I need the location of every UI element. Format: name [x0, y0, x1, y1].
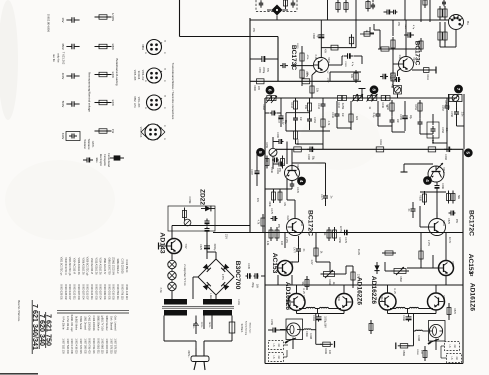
- svg-text:V313 AD161 Z6: V313 AD161 Z6: [94, 258, 97, 276]
- svg-text:St861 Stecker: St861 Stecker: [105, 315, 108, 330]
- electrolytic C375 2200u: [206, 243, 208, 246]
- wire mid amp rail: [277, 148, 463, 150]
- capacitor C387 top stub: [372, 3, 374, 5]
- capacitor C388: [384, 11, 388, 13]
- svg-text:R380: R380: [253, 85, 256, 91]
- headphone jack contacts: [370, 27, 374, 33]
- svg-text:2200µ: 2200µ: [213, 244, 216, 251]
- capacitor C478 under BC172C: [298, 245, 300, 249]
- electrolytic C447: [270, 112, 273, 114]
- svg-text:V306 AD162 Z6: V306 AD162 Z6: [81, 258, 84, 276]
- wire right base net: [420, 191, 446, 193]
- dashed speaker box right lower: [447, 354, 462, 363]
- svg-text:0,1µ: 0,1µ: [372, 113, 375, 118]
- svg-text:Bu: Bu: [466, 21, 470, 25]
- capacitor C457: [446, 102, 448, 106]
- wire matrix link1: [286, 112, 310, 114]
- svg-text:V306–312: V306–312: [141, 70, 143, 81]
- resistor R463 56: [306, 277, 308, 290]
- resistor R456 on rail: [334, 227, 336, 241]
- resistor R569 with terminal right: [398, 345, 411, 347]
- wire stage2 base: [393, 63, 399, 65]
- svg-text:only for: only for: [57, 53, 61, 62]
- emitter resistor R566 right: [410, 307, 419, 308]
- svg-text:C435: C435: [247, 263, 250, 269]
- svg-text:C480: C480: [276, 132, 279, 138]
- svg-text:V-Pot 25k lin: V-Pot 25k lin: [62, 316, 65, 330]
- dashed speaker box left upper: [269, 341, 284, 350]
- capacitor C381 input: [280, 65, 283, 67]
- svg-text:AC153: AC153: [271, 253, 278, 274]
- resistor R443: [295, 98, 297, 112]
- svg-text:R-Pot 10k log: R-Pot 10k log: [66, 316, 69, 331]
- capacitor C446: [336, 110, 338, 114]
- svg-text:8 900 132 011: 8 900 132 011: [90, 284, 93, 300]
- svg-text:Mains fuse: Mains fuse: [249, 323, 251, 334]
- wire to socket: [447, 19, 449, 21]
- resistor R455 on rail: [328, 227, 330, 241]
- parts list divider rule: [57, 310, 129, 312]
- wire right frame upper: [463, 94, 465, 149]
- diode bias right: [376, 262, 378, 274]
- svg-text:1/10W: 1/10W: [111, 13, 115, 21]
- capacitor C389: [392, 11, 394, 13]
- svg-text:C483: C483: [444, 154, 447, 160]
- junction dot 4 left channel: [298, 177, 306, 185]
- resistor R450: [391, 100, 393, 114]
- svg-text:V861: V861: [141, 44, 144, 50]
- wire main left supply rail: [249, 18, 251, 233]
- volume pot wiper 2: [368, 96, 372, 101]
- electrolytic C414 stage2: [395, 79, 397, 81]
- capacitor C361 at top edge: [292, 0, 294, 3]
- right trimmer R452 cluster: [449, 95, 462, 102]
- svg-text:C487: C487: [250, 169, 253, 175]
- svg-text:22,8V: 22,8V: [339, 226, 341, 232]
- svg-text:1,9V: 1,9V: [398, 55, 401, 60]
- wire upper amp rail: [250, 80, 361, 82]
- legend ferrite bead symbol: [110, 157, 124, 159]
- legend resistor wattage 1/8W: [95, 46, 112, 48]
- svg-text:Si861 80mA tr: Si861 80mA tr: [96, 315, 99, 330]
- wire output rail: [265, 284, 463, 286]
- svg-text:1k5: 1k5: [355, 116, 358, 121]
- svg-text:910•914: 910•914: [137, 71, 139, 80]
- resistor R363 at top edge: [345, 0, 347, 13]
- wire socket lower leads: [439, 22, 441, 32]
- svg-text:8 900 187 004: 8 900 187 004: [99, 284, 102, 300]
- svg-text:R446 25k lin: R446 25k lin: [125, 259, 128, 273]
- resistor R392: [439, 29, 441, 43]
- svg-text:21V: 21V: [256, 198, 259, 203]
- wire interstage: [329, 64, 343, 66]
- resistor R462b on mid rail: [428, 147, 436, 152]
- wire bridge bottom to transformer: [215, 295, 217, 299]
- resistor R399 at top edge: [424, 0, 426, 8]
- svg-text:40µ: 40µ: [391, 84, 394, 89]
- svg-text:C443: C443: [317, 103, 320, 109]
- svg-text:110V~: 110V~: [192, 323, 194, 330]
- svg-text:R456: R456: [338, 237, 341, 243]
- svg-text:R562: R562: [399, 276, 402, 282]
- transistor V303 BC172C left: [287, 219, 304, 236]
- transformer secondary winding bar right: [203, 310, 232, 316]
- svg-text:LS: LS: [450, 357, 453, 360]
- svg-text:V305–308: V305–308: [133, 70, 135, 81]
- svg-text:V314: V314: [442, 295, 445, 301]
- emitter resistor R465 left: [306, 307, 315, 308]
- bridge rectifier B30C700 diamond: [198, 259, 234, 295]
- output coupling coil small right: [416, 329, 423, 332]
- svg-text:10n: 10n: [341, 113, 344, 118]
- junction dot 8 isolated: [370, 86, 378, 94]
- svg-text:V305: V305: [302, 295, 305, 301]
- svg-text:4,7k: 4,7k: [327, 121, 330, 126]
- svg-text:4: 4: [425, 179, 430, 182]
- mains voltage selector taps: [195, 316, 197, 335]
- legend transistor pinout V862 1151 V301-303: [147, 95, 162, 110]
- jack switch contact left: [288, 338, 296, 341]
- wire horizontal to amplifier block: [180, 36, 279, 38]
- legend capacitor voltage rating 500V: [66, 103, 72, 105]
- svg-text:Netzsicherung: Netzsicherung: [245, 321, 248, 336]
- svg-text:C575: C575: [447, 218, 450, 224]
- svg-text:2 Lämpchen 7V 0,1A: 2 Lämpchen 7V 0,1A: [183, 264, 186, 286]
- electrolytic C455: [404, 113, 406, 117]
- wire transformer left leg: [163, 316, 165, 342]
- wire driver left emitter: [286, 178, 288, 189]
- svg-text:C375: C375: [199, 244, 202, 250]
- wire matrix link2: [337, 127, 351, 129]
- electrolytic C461 output left: [318, 314, 320, 317]
- power transistor V313 AD162 right: [379, 293, 396, 310]
- svg-text:70V: 70V: [266, 68, 268, 73]
- svg-text:R371: R371: [296, 43, 298, 49]
- resistor R570 bottom: [448, 305, 450, 318]
- svg-text:C380: C380: [258, 67, 260, 73]
- resistor R388 base lower: [392, 70, 394, 84]
- bias trimmer R462 left: [324, 272, 335, 277]
- electrolytic C575 cluster: [449, 212, 452, 214]
- capacitor C577: [412, 205, 414, 209]
- svg-text:R569: R569: [402, 350, 405, 356]
- wire stub to top edge: [327, 0, 329, 20]
- svg-text:V302: V302: [412, 57, 415, 63]
- wire bridge top to regulator: [215, 252, 217, 259]
- svg-text:16V: 16V: [256, 284, 259, 289]
- resistor R455 bias: [315, 245, 317, 259]
- svg-text:4Ω: 4Ω: [455, 356, 458, 359]
- svg-text:R462: R462: [328, 279, 331, 285]
- junction dot 4 right channel: [424, 177, 432, 185]
- power transistor V306 AD162 left: [336, 294, 353, 311]
- legend resistor wattage 1/4W: [95, 74, 112, 76]
- dashed interconnect box at top edge: [256, 0, 297, 12]
- electrolytic C475 cluster: [271, 218, 274, 220]
- AD143 base terminal: [159, 245, 167, 247]
- svg-text:LS: LS: [448, 345, 451, 348]
- svg-text:ZD22: ZD22: [199, 189, 206, 205]
- resistor R538 hanging: [424, 191, 426, 205]
- svg-text:C479: C479: [344, 237, 347, 243]
- emitter resistor R565 right: [396, 307, 405, 308]
- DIN speaker socket Bu861: [449, 15, 464, 30]
- wire bc172c right leads: [436, 212, 438, 219]
- svg-text:C477: C477: [320, 194, 323, 200]
- svg-text:V313–316: V313–316: [139, 127, 141, 138]
- bridge diode D2: [221, 264, 229, 272]
- electrolytic C466 output right: [408, 314, 410, 317]
- svg-text:25V: 25V: [455, 219, 458, 224]
- svg-text:240V~: 240V~: [208, 322, 210, 329]
- svg-text:500V: 500V: [61, 101, 65, 108]
- svg-text:V310: V310: [442, 167, 445, 173]
- wire base network: [291, 65, 313, 67]
- wire driver right top link: [404, 163, 433, 165]
- svg-text:BC173C: BC173C: [290, 45, 297, 71]
- resistor R451: [419, 100, 421, 114]
- svg-text:4,7µ: 4,7µ: [412, 25, 414, 30]
- svg-text:8 900 131 007: 8 900 131 007: [86, 284, 89, 300]
- svg-text:8 900 706 115: 8 900 706 115: [120, 284, 123, 300]
- svg-text:1000µ/16V: 1000µ/16V: [324, 316, 327, 328]
- svg-text:220V~: 220V~: [187, 350, 190, 358]
- electrolytic C479 on rail: [342, 232, 345, 234]
- wire output junction left: [315, 321, 317, 344]
- dial lamp 2: [168, 271, 176, 279]
- transistor V311 BC172C right: [429, 219, 446, 236]
- svg-text:BC172C: BC172C: [307, 210, 314, 236]
- svg-text:22,4V: 22,4V: [448, 237, 451, 244]
- svg-text:V305 AD161 Z6: V305 AD161 Z6: [77, 258, 80, 276]
- capacitor C443: [322, 100, 324, 104]
- transistor V312 AC153 right: [439, 261, 454, 276]
- svg-text:4Ω: 4Ω: [453, 344, 456, 347]
- legend capacitor voltage rating 350V: [66, 46, 72, 48]
- wire second stage base left: [265, 188, 292, 190]
- svg-text:R411: R411: [426, 74, 429, 80]
- svg-text:8,2k: 8,2k: [431, 140, 434, 145]
- svg-text:1 907 575 216: 1 907 575 216: [114, 338, 117, 354]
- resistor R467 mid bottom: [370, 321, 372, 334]
- test point terminal: [361, 89, 363, 99]
- wire jack left: [292, 338, 294, 345]
- transistor V301 BC173C: [314, 58, 329, 73]
- svg-text:V314 AD162 Z6: V314 AD162 Z6: [99, 258, 102, 276]
- svg-text:R379: R379: [305, 71, 308, 77]
- resistor R377 branch: [331, 45, 338, 50]
- wire jack wiring: [374, 29, 380, 31]
- svg-text:V312: V312: [451, 261, 454, 267]
- svg-text:Si861 80mA tr: Si861 80mA tr: [116, 258, 119, 273]
- svg-text:Electrolytic: Electrolytic: [99, 154, 102, 167]
- resistor R436 hanging: [279, 189, 281, 203]
- svg-text:Tolerance: Tolerance: [87, 139, 90, 150]
- resistor R444: [295, 128, 297, 142]
- voltage regulator box outline: [168, 206, 215, 231]
- svg-text:C446: C446: [331, 112, 334, 118]
- svg-text:1/8W: 1/8W: [111, 43, 115, 50]
- svg-text:C383: C383: [344, 61, 346, 67]
- resistor pair on rail right: [381, 96, 385, 101]
- svg-text:ZD861 ZD22 5%: ZD861 ZD22 5%: [112, 257, 115, 276]
- electrolytic C413 interlink: [380, 76, 383, 78]
- stage2 emitter chain: [398, 68, 402, 71]
- resistor R380 on supply rail: [257, 79, 265, 84]
- wire collector to rail: [320, 20, 322, 58]
- legend power transistor pinout V313-316: [141, 124, 149, 132]
- black diamond connector marker: [272, 5, 283, 16]
- tone trimmer R459: [269, 148, 277, 156]
- svg-text:C451: C451: [313, 117, 316, 123]
- svg-text:V309: V309: [296, 164, 299, 170]
- wire bottom frame: [265, 363, 463, 365]
- resistor R371 base bias: [301, 50, 303, 64]
- capacitor C360 at top edge: [260, 0, 262, 3]
- electrolytic C459 jack left: [270, 329, 274, 331]
- svg-text:1 907 575 215: 1 907 575 215: [109, 338, 112, 354]
- boxed capacitor C453 styroflex: [427, 122, 439, 138]
- svg-text:2,15V: 2,15V: [427, 240, 429, 246]
- resistor R460 on mid rail: [294, 147, 302, 152]
- legend resistor wattage 1/2W: [95, 102, 112, 104]
- wire connector risers: [404, 0, 406, 20]
- svg-text:1 900 940 001: 1 900 940 001: [105, 338, 108, 354]
- svg-text:C457: C457: [441, 105, 444, 111]
- svg-text:C475: C475: [270, 208, 273, 214]
- wire regulator output: [172, 225, 250, 227]
- electrolytic C480 above trimmer: [277, 141, 280, 143]
- svg-text:4,7µ: 4,7µ: [351, 62, 353, 67]
- svg-text:Geh. Oberteil: Geh. Oberteil: [109, 316, 112, 331]
- electrolytic C533: [436, 184, 438, 186]
- svg-text:4,7k: 4,7k: [257, 220, 260, 225]
- svg-text:Tr861 Netztr.: Tr861 Netztr.: [79, 316, 82, 330]
- wire jack right: [435, 339, 437, 346]
- transformer primary winding bar right: [203, 299, 232, 305]
- wire left frame lower: [264, 98, 266, 364]
- svg-text:8 900 201 001: 8 900 201 001: [107, 284, 110, 300]
- capacitor C456: [419, 118, 421, 122]
- svg-text:AD162Z6: AD162Z6: [356, 277, 363, 306]
- svg-text:V304 AC153 VI: V304 AC153 VI: [73, 258, 76, 275]
- svg-text:C453: C453: [441, 127, 444, 133]
- wire driver collector branch: [292, 162, 326, 164]
- resistor R379 on rail: [302, 79, 310, 84]
- power transistor V314 AD161 right: [428, 293, 445, 310]
- capacitor C477: [325, 192, 327, 196]
- wire stage1 emitter to rail: [312, 71, 317, 76]
- transistor V302 BC173C: [399, 57, 414, 72]
- wire output pair left: [296, 285, 298, 294]
- resistor R564: [382, 252, 396, 254]
- wire tone band rail: [265, 97, 457, 99]
- svg-text:8 900 551 011: 8 900 551 011: [96, 338, 99, 354]
- wire regulator to rail: [206, 231, 208, 259]
- svg-text:25V: 25V: [278, 168, 281, 173]
- svg-text:1,2kΩ: 1,2kΩ: [209, 293, 211, 299]
- legend capacitor voltage rating 16V: [66, 19, 72, 21]
- svg-text:8 900 187 004: 8 900 187 004: [81, 284, 84, 300]
- bias trimmer R562 right: [394, 269, 406, 274]
- svg-text:C436: C436: [270, 167, 273, 173]
- resistor R397: [420, 38, 422, 52]
- wire output pair right: [387, 285, 389, 293]
- transistor V304 AC153 left: [278, 261, 293, 276]
- legend capacitor voltage rating 630V: [66, 132, 80, 141]
- wire selector common: [195, 341, 197, 348]
- svg-text:9,35V: 9,35V: [221, 274, 223, 280]
- wire output node left: [299, 308, 306, 310]
- wire output drop right: [413, 314, 415, 332]
- svg-text:R459: R459: [265, 142, 268, 148]
- wire output node right: [390, 308, 396, 310]
- resistor R362 at top edge: [337, 0, 339, 13]
- svg-text:C486: C486: [441, 183, 444, 189]
- svg-text:Elko: Elko: [95, 158, 98, 163]
- trimmer in regulator: [184, 219, 191, 226]
- hanging cluster below mid rail: [266, 156, 268, 169]
- svg-text:8 900 706 421: 8 900 706 421: [92, 338, 95, 354]
- svg-text:C382: C382: [312, 33, 315, 39]
- transistor V310 driver right: [428, 166, 444, 182]
- dashed speaker box left lower: [269, 353, 284, 362]
- svg-text:110Ω: 110Ω: [237, 299, 239, 305]
- electrolytic C377: [206, 227, 208, 229]
- svg-text:220V~: 220V~: [200, 322, 202, 329]
- svg-text:R538: R538: [419, 195, 422, 201]
- wire input line from top edge: [179, 0, 181, 37]
- svg-text:250µ: 250µ: [251, 282, 254, 288]
- svg-text:50µ: 50µ: [312, 156, 315, 161]
- svg-text:R568: R568: [416, 349, 418, 355]
- svg-text:22µ: 22µ: [409, 115, 412, 120]
- svg-text:C375 2200/25: C375 2200/25: [120, 258, 123, 274]
- svg-text:4: 4: [299, 180, 304, 183]
- svg-text:C476: C476: [296, 187, 299, 193]
- resistor R448: [350, 111, 352, 125]
- svg-text:1/4W: 1/4W: [111, 71, 115, 78]
- wire ac153 right leads: [445, 233, 447, 261]
- resistor R438 on rail: [276, 227, 278, 241]
- electrolytic C482 on mid rail: [307, 148, 310, 150]
- stage2 collector right link: [412, 69, 433, 71]
- svg-text:8 901 148 110: 8 901 148 110: [125, 284, 128, 300]
- junction dot 5 right: [464, 149, 472, 157]
- svg-text:1,5V: 1,5V: [326, 78, 328, 83]
- resistor R398 at top edge: [367, 0, 369, 12]
- svg-text:C482: C482: [307, 154, 310, 160]
- legend transistor pinout V861: [147, 40, 162, 55]
- capacitor C476: [291, 182, 293, 184]
- svg-text:V301–303: V301–303: [137, 97, 139, 108]
- bridge diode D1: [203, 264, 211, 272]
- svg-text:8 900 551 011: 8 900 551 011: [116, 284, 119, 300]
- svg-text:630V: 630V: [61, 133, 65, 140]
- resistor R568 bottom right: [424, 348, 426, 361]
- mains fuse Si 80mA: [231, 316, 233, 323]
- svg-text:T 621.262: T 621.262: [62, 52, 66, 65]
- svg-text:7,5V: 7,5V: [184, 244, 187, 249]
- resistor R360 at top edge: [285, 0, 287, 9]
- svg-text:V301: V301: [327, 57, 330, 63]
- svg-text:AD143: AD143: [159, 232, 166, 253]
- svg-text:R461: R461: [379, 139, 382, 145]
- junction dot 6: [266, 86, 274, 94]
- trimmer R383 tone left: [267, 96, 271, 101]
- wire trimmer caps link: [286, 142, 288, 165]
- wire output node left2: [297, 313, 345, 315]
